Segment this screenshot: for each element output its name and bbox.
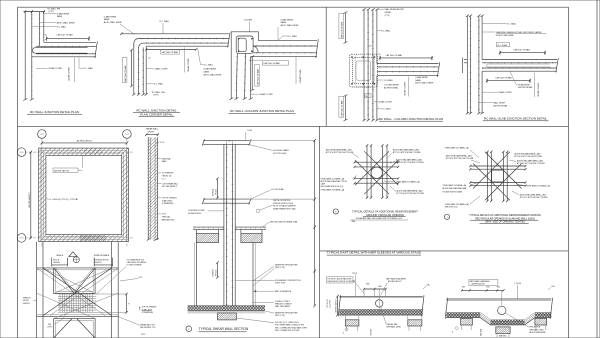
D4 horiz wall rebars w ticks [377,66,439,68]
svg-text:DIA. 450MM SEE NOTE (1,2): DIA. 450MM SEE NOTE (1,2) [321,185,344,188]
svg-text:(TYP.): (TYP.) [47,327,52,329]
svg-text:ADDITIONAL DIAGONAL BAR: ADDITIONAL DIAGONAL BAR [443,187,467,190]
svg-text:50: 50 [378,54,380,56]
D4 lap dim vertical boxed top [345,13,347,43]
DA grid bubble top-left [38,130,47,139]
R1 left dim as per layout [337,296,339,315]
svg-text:ADDITIONAL BARS AREA = (A)/2: ADDITIONAL BARS AREA = (A)/2 [515,152,541,155]
svg-text:SAME: SAME [57,15,63,18]
D2 corner U-bar bends [134,39,143,51]
svg-text:VET. SEE DETAILS: VET. SEE DETAILS [162,185,178,188]
DC below-ground verticals [196,243,198,306]
D3 lap dim horizontal boxed [249,59,262,61]
svg-text:AT TOP & BOTTOM USE 2T16 MIN.: AT TOP & BOTTOM USE 2T16 MIN. [396,161,424,164]
svg-text:SPLICE: SPLICE [215,188,217,195]
svg-text:PLACED WITH FLOOR &: PLACED WITH FLOOR & [273,202,294,205]
svg-text:R.C. WALL: R.C. WALL [57,25,68,28]
svg-text:RAFT BASE SLAB MESH: RAFT BASE SLAB MESH [386,278,407,281]
detail DC: typical shear wall section [188,130,316,307]
svg-text:R.C. WALL: R.C. WALL [84,67,95,70]
svg-text:J: J [447,217,448,219]
D1 wall right break [95,41,98,58]
DF lower V brace [54,319,72,338]
DF grid bubble [73,257,79,263]
svg-text:LVL (TYP.): LVL (TYP.) [330,299,332,308]
svg-text:LAP 50d# OF BAR: LAP 50d# OF BAR [386,54,403,57]
DA rebar rect 2 [44,153,124,236]
detail D4: RC wall-column junction tee [339,8,443,121]
R2 end breaks [445,298,447,319]
svg-text:AT TOP & BOTTOM USE 2T16 MIN.: AT TOP & BOTTOM USE 2T16 MIN. [393,151,421,154]
DA rebar rect 1 [41,150,126,239]
svg-text:TOP OF OPENING: TOP OF OPENING [142,307,157,309]
svg-text:RC WALL-SLAB JUNCTION SECTION: RC WALL-SLAB JUNCTION SECTION DETAIL [484,116,548,120]
R1 end breaks [338,295,340,316]
D4 horiz wall faces [377,63,439,65]
svg-text:TOP S.O.R.: TOP S.O.R. [327,298,329,308]
R2 pads hatched [460,317,462,320]
svg-text:WELL COMPACTED ROAD BASE OVER: WELL COMPACTED ROAD BASE OVER [275,326,308,329]
D1 horiz wall rebar line w ticks [36,45,96,47]
svg-text:COLUMN: COLUMN [384,80,393,82]
DA top dim line [42,142,127,144]
D2 lap dim vertical boxed [131,50,133,86]
svg-text:R.C. WALL: R.C. WALL [288,35,299,38]
R2 X mark [455,326,459,330]
DD diagonal bars [364,151,398,185]
D1 wall bottom break ticks [23,98,27,100]
D5 top ticks [466,15,469,17]
svg-text:STEEL BARS CUT AREA = (A): STEEL BARS CUT AREA = (A) [321,177,345,180]
D5 label clear cover [482,91,497,93]
svg-text:T-B16 (H) / T16 (V) , TYPICAL: T-B16 (H) / T16 (V) , TYPICAL [52,198,79,201]
panel divider vertical top row [325,7,327,126]
svg-text:IN CASE WIDTH>450MM: IN CASE WIDTH>450MM [443,190,463,193]
svg-text:U-BAR REINF.: U-BAR REINF. [104,15,117,18]
svg-text:AS PER NOTES: AS PER NOTES [188,212,202,215]
svg-text:AS PER DETAIL: AS PER DETAIL [493,104,508,107]
D3 label clear cover [251,93,258,95]
svg-text:R.C. WALL: R.C. WALL [204,64,215,67]
DA inner face rect [46,155,122,234]
svg-text:AT TOP & BOTTOM USE 2T16 MIN.: AT TOP & BOTTOM USE 2T16 MIN. [515,155,543,158]
R2 stepped mesh band [446,313,551,320]
svg-text:CLEAR COVER: CLEAR COVER [299,69,302,83]
svg-text:R.C. WALL: R.C. WALL [154,83,165,86]
D1 leader clear cover [36,67,48,69]
svg-text:WALL VERT BARS: WALL VERT BARS [275,305,291,308]
D4 wall vertical faces [363,10,365,121]
D2 label clear cover [147,68,153,70]
svg-text:50: 50 [148,57,150,59]
D4 small RC box [365,94,371,98]
DF pier verticals from above [36,242,38,338]
svg-text:GROUND SLAB OR GRADE SLAB: GROUND SLAB OR GRADE SLAB [270,220,298,223]
D1 leader U-BAR REINF [44,13,56,15]
svg-text:ADDITIONAL BARS AREA = (A)/2: ADDITIONAL BARS AREA = (A)/2 [446,155,472,158]
DB dim line [146,134,158,136]
R2 pad legs [461,325,463,330]
D3 vert wall faces below column [250,57,252,99]
D2 horiz wall top face [121,33,229,35]
svg-text:X: X [343,333,345,335]
svg-text:RC WALL JUNCTION DETAIL PLAN: RC WALL JUNCTION DETAIL PLAN [30,110,79,114]
svg-text:LAP 50d# OF BAR: LAP 50d# OF BAR [496,77,513,80]
DA boxed label AS PER LAYOUT [53,168,78,173]
svg-text:ADDITIONAL BARS AREA = (A)/2: ADDITIONAL BARS AREA = (A)/2 [396,158,422,161]
svg-text:SAME: SAME [104,18,110,21]
svg-text:T/2) SL: T/2) SL [352,273,358,275]
D5 slab faces [482,59,557,61]
R2 pipe sleeve circle [498,306,506,314]
D4 column block outer stirrup [349,54,377,87]
svg-text:SPLICE: SPLICE [23,300,30,302]
svg-text:STEEL BARS CUT AREA = (A): STEEL BARS CUT AREA = (A) [445,147,469,150]
D3 wall rebar lines w ticks [253,45,317,47]
svg-text:ADDITIONAL REINF.: ADDITIONAL REINF. [530,331,547,334]
svg-text:MEP/SANI. (SHD): MEP/SANI. (SHD) [387,326,401,329]
svg-text:THROUGHOUT LENGTH OF THE PIPE: THROUGHOUT LENGTH OF THE PIPE [327,281,355,283]
svg-text:RAFT FOUNDATION: RAFT FOUNDATION [275,290,292,293]
svg-text:CLEAR COVER: CLEAR COVER [187,58,190,72]
D4 label RC WALL bottom [377,108,381,110]
DC raft hatch band [188,306,266,311]
svg-text:(OTHERWISE): (OTHERWISE) [162,203,174,205]
svg-text:DETAIL: DETAIL [385,11,393,14]
svg-text:T/2 STIRRUPS: T/2 STIRRUPS [162,173,175,175]
svg-text:TOP & BOTT. ADDITIONAL REINF.: TOP & BOTT. ADDITIONAL REINF. [327,278,352,281]
svg-text:RC WALL -COLUMN JUNCTION DETAI: RC WALL -COLUMN JUNCTION DETAIL PLAN [230,109,294,113]
svg-text:TENSION: TENSION [23,297,31,299]
D1 leader RC WALL [32,26,56,28]
svg-text:TYPICAL RAFT DETAIL WITH MEP S: TYPICAL RAFT DETAIL WITH MEP SLEEVES AT … [327,251,421,255]
svg-text:LAP 50d# OF BAR: LAP 50d# OF BAR [341,21,344,38]
svg-text:LAP 50d# OF BAR: LAP 50d# OF BAR [264,62,281,65]
svg-text:AS PER LAYOUT: AS PER LAYOUT [28,191,31,207]
svg-text:U-BAR REINF.: U-BAR REINF. [415,76,428,79]
svg-text:CLEAR COVER: CLEAR COVER [498,91,512,94]
D2 vert wall rebars w ticks [138,50,140,95]
DA grid centerlines [41,138,43,247]
svg-text:LAP 50d# OF BAR: LAP 50d# OF BAR [256,68,259,85]
svg-text:RC WALL THK.: RC WALL THK. [152,91,166,94]
svg-text:RC WALL THK: RC WALL THK [48,7,62,10]
DB wall strip faces [147,137,149,239]
svg-text:(OTHERWISE): (OTHERWISE) [142,312,154,314]
D4 wall vertical rebars w ticks [367,10,369,121]
svg-text:50: 50 [369,45,371,47]
svg-text:TYPICAL SHEAR WALL SECTION: TYPICAL SHEAR WALL SECTION [199,327,249,331]
D3 outer corner boundary [231,32,317,99]
svg-text:R.C. WALL: R.C. WALL [507,23,518,26]
DB bottom ticks [147,238,150,240]
svg-text:AS RC WALL REINF.: AS RC WALL REINF. [57,21,76,24]
DF coupling beam mesh horizontals [58,293,96,295]
svg-text:ADDITIONAL BARS AREA = (A)/2: ADDITIONAL BARS AREA = (A)/2 [393,148,419,151]
D4 column inner tie [356,61,371,80]
svg-text:WITH RC WALL REINF.: WITH RC WALL REINF. [496,34,515,37]
R1 slab top lines [339,295,422,297]
svg-text:T/2 STIRRUPS AT 100: T/2 STIRRUPS AT 100 [127,259,144,262]
svg-text:WALL REINF AS PER: WALL REINF AS PER [385,8,405,11]
svg-text:AT TOP & BOTTOM USE 2T16 MIN.: AT TOP & BOTTOM USE 2T16 MIN. [397,192,425,195]
svg-text:AT TOP & BOTTOM USE 2T16 MIN.: AT TOP & BOTTOM USE 2T16 MIN. [520,196,548,199]
D5 slab rebars w ticks [482,62,557,64]
DC right storey dim line [314,140,316,305]
svg-text:ADDITIONAL DIAGONAL 2T16 IN: ADDITIONAL DIAGONAL 2T16 IN [321,180,348,183]
D5 wall vertical rebars w ticks [469,16,471,114]
svg-text:4T25: 4T25 [141,334,145,336]
svg-text:(MAX. SIZE OF OPENING 750X750): (MAX. SIZE OF OPENING 750X750) [485,220,525,223]
svg-text:SHEAR WALL NFT: SHEAR WALL NFT [140,324,156,327]
svg-text:B4D: B4D [378,286,382,288]
R1 mesh band [339,309,422,315]
svg-text:X: X [452,332,454,334]
D4 label clear cover [374,101,377,103]
svg-text:CLEAR COVER: CLEAR COVER [48,67,62,70]
svg-text:LAP 50d# OF BAR: LAP 50d# OF BAR [341,100,344,117]
svg-text:VERTICAL: VERTICAL [162,216,170,219]
svg-text:WALL REINF: WALL REINF [493,102,505,105]
svg-text:AS RC WALL REINF.: AS RC WALL REINF. [104,21,123,24]
DD horizontal bars [354,161,398,163]
DD opening circle [371,167,382,178]
D4 lap dim vertical boxed bottom [345,96,347,121]
svg-text:AT TOP & BOTTOM USE 2T16 MIN.: AT TOP & BOTTOM USE 2T16 MIN. [446,157,474,160]
svg-text:STEEL BARS CUT AREA = (A): STEEL BARS CUT AREA = (A) [445,203,469,206]
svg-text:AT TOP & BOTTOM USE 2T16 MIN.: AT TOP & BOTTOM USE 2T16 MIN. [326,151,354,154]
DB wall strip rebars [150,137,152,239]
D4 column bars [351,57,352,58]
D4 top ticks [363,8,366,10]
svg-text:SPEC (TYP.): SPEC (TYP.) [275,267,285,269]
DE title bubble J [444,214,449,219]
D2 horiz wall right break [228,33,230,48]
panel divider vertical lower rows [319,126,321,338]
D4 horiz wall right break [437,62,440,77]
svg-text:WATER PROOFING AS PER: WATER PROOFING AS PER [275,312,298,315]
D1 horiz wall top face [44,41,96,43]
svg-text:R.C. WALL: R.C. WALL [381,29,392,32]
D3 vert wall bottom ticks [229,98,233,100]
D2 vert wall bottom ticks [132,93,135,95]
D3 column stirrup outer [236,36,253,53]
D3 wall bottom face [251,56,317,58]
svg-text:TIED AT 100: TIED AT 100 [162,175,172,178]
DA grid bubble top-right [123,130,132,139]
svg-text:JOINT. (TYP): JOINT. (TYP) [275,283,286,285]
svg-text:DBL: DBL [552,286,555,288]
DD title bubble B [333,209,338,214]
svg-text:SAME: SAME [204,70,210,73]
DC raft top line [188,305,266,307]
DC wall faces [223,144,225,305]
DF upper V brace [54,268,75,294]
svg-text:AS PER LAYOUT: AS PER LAYOUT [472,283,486,286]
svg-text:BARS BEYOND: BARS BEYOND [162,218,175,221]
DC tension splice dim lower [216,263,218,278]
D5 label wall reinf as per detail [479,102,493,104]
svg-text:ADDITIONAL BARS AREA = (A)/2: ADDITIONAL BARS AREA = (A)/2 [520,194,546,197]
panel divider horizontal raft panel [320,250,569,252]
R1 pipe sleeve circle [376,300,383,307]
DC tension splice dim upper [216,179,218,198]
svg-text:D50: D50 [486,287,489,289]
svg-text:R.C. WALL: R.C. WALL [381,107,392,110]
svg-text:W/B: W/B [366,283,370,285]
DA left dim line [30,152,32,238]
DA grid bubble left-bottom [17,234,26,243]
DC ground slab left [193,226,224,228]
detail D2: RC wall junction plan corner [104,15,230,116]
R1 X marks [345,327,349,331]
svg-text:SAME: SAME [281,21,287,24]
svg-text:LAP 50d# OF BAR: LAP 50d# OF BAR [124,65,127,82]
DC roof slab [203,139,250,141]
svg-text:PLAN CORNER DETAIL: PLAN CORNER DETAIL [140,112,173,116]
D1 wall vertical rebar line [31,12,33,100]
svg-text:TENSION: TENSION [213,188,215,196]
svg-text:AS PER LAYOUT: AS PER LAYOUT [54,169,70,172]
svg-text:MEP/SANI. (SHD): MEP/SANI. (SHD) [530,328,544,331]
D4 label COLUMN [378,79,384,81]
svg-text:AS PER DETAIL: AS PER DETAIL [518,86,533,89]
svg-text:LENGTH: LENGTH [23,303,31,305]
svg-text:U-BAR REINF.: U-BAR REINF. [57,12,70,15]
DE horizontal bars [470,165,525,167]
D4 label RC WALL [377,30,380,32]
svg-text:WATER PROOFING AS PER: WATER PROOFING AS PER [275,264,298,267]
svg-text:LENGTH: LENGTH [94,262,102,264]
svg-text:TOP OF OPENING: TOP OF OPENING [162,198,177,200]
D2 horiz wall bottom face [146,45,229,47]
svg-text:MM): MM) [352,221,356,223]
svg-text:SLAB REINF. (SAME AS RC WALL V: SLAB REINF. (SAME AS RC WALL VERT. REINF… [496,31,543,34]
DA brace hatch zone bottom wall [80,235,106,241]
svg-text:T50 MIN: T50 MIN [371,329,373,336]
svg-text:ADDITIONAL BARS AREA = (A)/2: ADDITIONAL BARS AREA = (A)/2 [397,189,423,192]
svg-text:DBL: DBL [427,285,430,287]
D1 horiz wall bottom face [32,56,96,58]
svg-text:BRACE: BRACE [57,254,64,257]
svg-text:AS PER LAYOUT: AS PER LAYOUT [77,140,93,143]
D1 top thickness dim line [24,11,46,13]
D5 slab stub dim left [464,59,467,61]
svg-text:AS PER LAYOUT: AS PER LAYOUT [388,280,402,283]
detail DA: shaft wall plan [17,130,134,248]
DC footing blocks [195,230,197,234]
svg-text:STEEL BARS CUT AREA = (A): STEEL BARS CUT AREA = (A) [443,184,467,187]
svg-text:CLEAR COVER: CLEAR COVER [378,101,392,104]
svg-text:PIPE AS PER: PIPE AS PER [387,323,398,326]
detail D5: RC wall-slab junction section [463,15,559,121]
svg-text:SPEC (TYP.): SPEC (TYP.) [275,315,285,317]
R2 mesh hatch upper left [446,313,480,318]
D3 vert wall rebars w ticks [236,53,237,98]
DF top chord [37,267,119,269]
R1 pads hatched [344,315,346,320]
DF coupling beam mesh verticals [59,294,61,312]
svg-text:U-BAR REINF.: U-BAR REINF. [204,68,217,71]
svg-text:TSB: TSB [48,324,52,326]
svg-text:4T16: 4T16 [162,214,166,216]
svg-text:ADDITIONAL BARS AREA = (A)/2: ADDITIONAL BARS AREA = (A)/2 [326,148,352,151]
page right edge line [596,0,598,338]
svg-text:AS PER DETAIL: AS PER DETAIL [384,86,399,89]
D1 wall vertical face left [24,12,26,100]
svg-text:D/B: D/B [462,287,466,289]
D2 lap dim bracket + boxed label [146,49,196,51]
svg-text:LENGTH: LENGTH [53,262,61,264]
DC PCC block hatched [218,313,237,320]
svg-text:(TYP.): (TYP.) [153,95,159,97]
svg-text:CONT SHEAR WALL: CONT SHEAR WALL [162,182,178,185]
R1 boxed note top&bott additional reinf [327,277,354,283]
D5 slab right break [556,58,559,73]
detail DF: shear wall brace elevation [23,242,157,338]
svg-text:AS RC WALL REINF.: AS RC WALL REINF. [204,73,223,76]
svg-text:DEPTH OF PORTION: DEPTH OF PORTION [273,200,291,202]
svg-text:BEAM FRAMING INTO WALL: BEAM FRAMING INTO WALL [273,208,296,211]
svg-text:R.C. SLAB: R.C. SLAB [498,44,508,47]
svg-text:AT TOP & BOTTOM USE 2T16 MIN.: AT TOP & BOTTOM USE 2T16 MIN. [517,162,545,165]
svg-text:DIAGONAL: DIAGONAL [162,157,171,160]
R1 pad legs [346,326,348,331]
D2 horiz wall left break [120,32,122,35]
svg-text:SAB MIN: SAB MIN [480,328,483,336]
DC raft bottom lines [188,310,266,312]
detail DE: additional reinforcement around rectangular opening [443,147,551,224]
D5 wall vertical faces [466,16,468,114]
svg-text:RAFT BASE SLAB MESH: RAFT BASE SLAB MESH [470,280,491,283]
D2 vert wall faces [133,43,135,95]
detail DD: additional reinforcement around circular opening [321,144,425,223]
svg-text:LAP 50d# OF BAR: LAP 50d# OF BAR [162,51,179,54]
DC wall rebars w ticks [226,144,228,305]
svg-text:CLEAR COVER: CLEAR COVER [259,93,273,96]
DC wall hooks [227,140,233,144]
svg-text:LAP 50d# OF BAR: LAP 50d# OF BAR [57,33,74,36]
raft section R1 with pipe sleeve [327,273,430,336]
D1 wall vertical face right [43,12,45,42]
D1 lap dim bracket [47,38,90,40]
DA grid bubble left-top [17,148,26,157]
R2 boxed label raft base slab mesh [469,280,498,286]
D3 label RC WALL [279,36,288,40]
raft details title [327,251,421,256]
svg-text:U-BAR REINF.: U-BAR REINF. [281,18,294,21]
detail D1: RC wall junction plan [23,7,97,114]
svg-text:CLEAR COVER: CLEAR COVER [403,81,406,95]
svg-text:AS RC WALL REINF.: AS RC WALL REINF. [415,82,434,85]
svg-text:SPACING TO MATCH: SPACING TO MATCH [275,303,293,306]
D4 bottom ticks [363,119,366,121]
D5 slab U-bar stadium [487,64,550,67]
svg-text:CLOSED STIRRUP: CLOSED STIRRUP [127,265,143,267]
svg-text:R.C. WALL: R.C. WALL [160,20,171,23]
DA outer face rect [39,148,129,241]
svg-text:TENSION: TENSION [213,269,215,277]
svg-text:CONCRETE COVER: CONCRETE COVER [188,210,205,212]
D5 label RC SLAB boxed [496,43,509,47]
svg-text:CLEAR COVER: CLEAR COVER [67,67,70,81]
svg-text:(TYP): (TYP) [385,15,390,17]
svg-text:H04: H04 [497,287,500,289]
svg-text:2T16: 2T16 [138,277,142,279]
svg-text:AS PER LAYOUT: AS PER LAYOUT [334,298,337,312]
D2 label RC WALL [147,83,154,85]
D4 label WALL REINF AS PER DETAIL TYP [377,8,384,10]
